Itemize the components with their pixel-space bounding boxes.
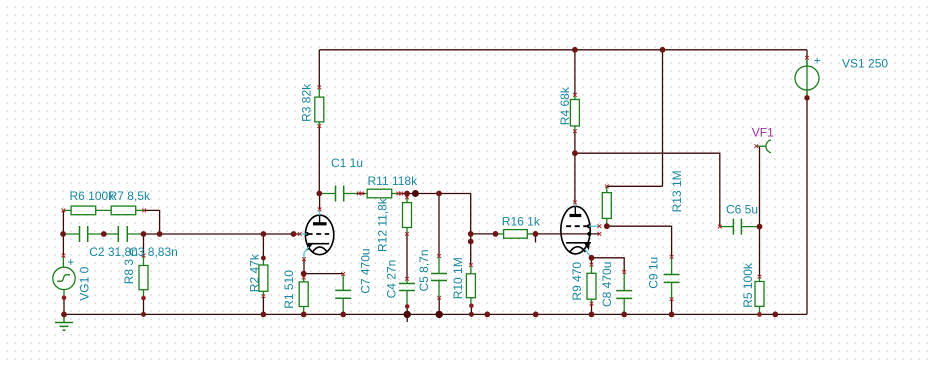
junction rail at ground xyxy=(61,312,67,318)
triode V1 envelope xyxy=(305,215,333,255)
junction R16 right xyxy=(533,231,539,237)
pin dot C4 bottom xyxy=(405,304,410,309)
wire C4 bottom to rail with stub xyxy=(406,306,408,322)
pin V2 grid xyxy=(598,224,602,228)
junction rail joint 1 xyxy=(484,312,490,318)
triode V1 cathode pin lead xyxy=(304,247,309,259)
wire R8 top link xyxy=(143,234,145,256)
wire C9 bottom to rail xyxy=(671,299,673,314)
wire R3 top to rail xyxy=(318,50,320,88)
pin R9 top xyxy=(590,263,594,267)
resistor R6 xyxy=(63,206,103,215)
pin C9 bottom xyxy=(670,297,674,301)
junction input node at VG1 xyxy=(60,231,66,237)
junction VS1 bottom pin xyxy=(804,95,809,100)
junction rail at R1 xyxy=(301,312,307,318)
triode V1 anode xyxy=(313,215,327,224)
svg-text:R4 68k: R4 68k xyxy=(558,86,572,125)
junction rail at R2 xyxy=(261,312,267,318)
pin V2 anode xyxy=(573,201,577,205)
wire V2 grid node to C9 xyxy=(607,226,672,257)
wire stub below R16 right pin xyxy=(535,234,537,243)
svg-text:R5 100k: R5 100k xyxy=(741,262,755,308)
wire node N2 branch down to C5 xyxy=(438,194,440,257)
wire R13 column to rail xyxy=(662,50,664,187)
resistor R4 xyxy=(570,95,579,131)
svg-text:+: + xyxy=(814,53,821,67)
svg-text:R12 11,8k: R12 11,8k xyxy=(376,197,390,252)
wire cathode node to C7 xyxy=(304,273,344,275)
svg-text:R1 510: R1 510 xyxy=(282,270,296,309)
wire R12 top link xyxy=(406,194,408,198)
pin C5 bottom xyxy=(437,296,441,300)
pin R5 top xyxy=(758,275,762,279)
pin R11 left xyxy=(360,192,364,196)
pin R12 bottom xyxy=(405,232,409,236)
junction top rail / R4 xyxy=(572,47,578,53)
junction R2 wire joint xyxy=(261,256,266,261)
svg-text:R3 82k: R3 82k xyxy=(300,83,314,122)
svg-text:C4 27n: C4 27n xyxy=(384,260,398,299)
junction top rail / R13 column xyxy=(660,47,666,53)
source VG1 body xyxy=(53,256,75,298)
junction rail at R9 xyxy=(589,312,595,318)
pin R13 top xyxy=(605,184,609,188)
resistor R1 xyxy=(299,276,308,314)
wire VS1 top lead drop xyxy=(806,50,808,58)
triode V2 grid (dashed) xyxy=(566,224,591,228)
capacitor C2 xyxy=(63,226,104,242)
wire C6 node down to R5 xyxy=(759,227,761,277)
junction N2 corner upper xyxy=(468,231,474,237)
capacitor C9 xyxy=(664,257,680,299)
pin dot VG1 bottom xyxy=(62,296,67,301)
wire R8 bottom to rail xyxy=(143,298,145,314)
wire VG1 top lead xyxy=(62,234,64,256)
wire ground bottom rail xyxy=(64,313,807,315)
svg-text:C5 8,7n: C5 8,7n xyxy=(417,249,431,291)
pin VS1 top xyxy=(805,56,809,60)
svg-text:+: + xyxy=(67,255,74,269)
wire C1 to R11 link xyxy=(357,193,365,195)
svg-text:VS1 250: VS1 250 xyxy=(842,57,888,71)
pin dot R8 bottom xyxy=(141,296,146,301)
pin VG1 top xyxy=(62,254,66,258)
capacitor C7 xyxy=(335,274,351,314)
junction rail joint 3 xyxy=(772,312,778,318)
svg-text:R11 118k: R11 118k xyxy=(368,174,419,188)
capacitor C6 xyxy=(720,219,760,235)
svg-text:R8 3: R8 3 xyxy=(122,259,136,285)
pin V1 cathode xyxy=(302,257,306,261)
triode V1 grid pin lead xyxy=(300,233,307,235)
resistor R12 xyxy=(403,197,412,233)
wire R12 bottom to C4 xyxy=(406,234,408,279)
probe VF1 symbol xyxy=(756,140,771,153)
resistor R10 xyxy=(466,265,475,306)
junction node N2 wire joint xyxy=(412,190,419,197)
junction rail at R10 xyxy=(469,312,474,317)
triode V1 grid (dashed) xyxy=(305,232,329,236)
wire input column VG1 to R6 xyxy=(62,210,64,234)
junction grid row at V1 grid xyxy=(291,231,297,237)
svg-text:VG1 0: VG1 0 xyxy=(77,266,91,300)
junction rail at R8 xyxy=(141,312,146,317)
junction input node at R7 corner xyxy=(157,231,163,237)
junction rail at C7 xyxy=(340,312,346,318)
junction R16 left xyxy=(493,231,499,237)
wire rail to R4 top xyxy=(574,50,576,95)
triode V1 cathode xyxy=(307,244,329,253)
triode V1 anode pin lead xyxy=(319,209,321,215)
wire VS1 to ground rail (right side) xyxy=(806,98,808,315)
wire node N2 down to R10 xyxy=(470,234,472,265)
svg-text:R9 470: R9 470 xyxy=(570,262,584,301)
svg-text:R2 47k: R2 47k xyxy=(248,253,262,292)
wire C5 bottom to rail xyxy=(438,298,440,315)
svg-text:C3 8,83n: C3 8,83n xyxy=(129,245,178,259)
wire VF1 probe drop to C6 node xyxy=(759,146,761,226)
junction rail joint 2 xyxy=(533,312,539,318)
pin R3 bottom xyxy=(317,124,321,128)
pin C9 top xyxy=(670,255,674,259)
pin V2 grid2 xyxy=(598,232,602,236)
triode V2 anode pin lead xyxy=(574,202,576,206)
junction rail at C4 xyxy=(404,311,411,318)
pin R9 bottom xyxy=(590,302,594,306)
pin VF1 probe xyxy=(754,144,758,148)
resistor R3 xyxy=(315,88,324,127)
pin R6 left xyxy=(62,209,66,213)
pin R3 top xyxy=(317,86,321,90)
pin R1 top xyxy=(302,276,306,280)
pin R11 right xyxy=(396,192,400,196)
junction V2 cathode node xyxy=(589,255,595,261)
resistor R2 xyxy=(259,261,268,297)
pin C6 left xyxy=(718,225,722,229)
junction rail at C5 xyxy=(436,311,443,318)
junction input node at R8 xyxy=(141,231,147,237)
wire R3 bottom to node A1 (V1 anode) xyxy=(318,126,320,194)
wire R2 top link xyxy=(262,234,264,261)
triode V2 cathode pin lead xyxy=(585,249,592,257)
svg-text:R10 1M: R10 1M xyxy=(451,257,465,299)
capacitor C3 xyxy=(104,226,144,242)
svg-text:R13 1M: R13 1M xyxy=(670,170,684,212)
wire V2 anode node row xyxy=(575,153,720,226)
pin dot V2 grid2 inside xyxy=(587,232,591,236)
junction node N2 at C5 xyxy=(436,191,442,197)
wire V2 cathode node to C8 xyxy=(592,258,625,272)
pin C7 top xyxy=(341,272,345,276)
junction node A1 (R3/C1/V1 anode) xyxy=(316,191,322,197)
wire R9 top link xyxy=(591,258,593,265)
resistor R7 xyxy=(103,206,143,215)
wire R16 to V2 grid2 connection xyxy=(536,233,600,235)
resistor R5 xyxy=(755,277,764,315)
resistor R9 xyxy=(587,265,596,304)
wire V1 anode lead xyxy=(319,194,321,210)
wire VG1 bottom to rail xyxy=(63,298,65,315)
svg-text:C6 5u: C6 5u xyxy=(726,203,758,217)
pin V1 grid xyxy=(298,232,302,236)
junction rail at C9 xyxy=(669,312,675,318)
pin R8 top xyxy=(142,254,146,258)
pin R4 bottom xyxy=(573,129,577,133)
capacitor C5 xyxy=(431,256,447,298)
wire node N2 to R16 xyxy=(471,233,496,235)
wire anode node to V2 anode xyxy=(574,153,576,202)
pin R7 right xyxy=(142,209,146,213)
capacitor C1 xyxy=(319,186,357,202)
wire R2 bottom to rail xyxy=(262,296,264,314)
pin V1 anode xyxy=(318,208,322,212)
svg-text:R7 8,5k: R7 8,5k xyxy=(109,189,151,203)
wire V1 cathode drop xyxy=(303,259,305,274)
triode V2 grid pin lead xyxy=(589,225,600,227)
junction V1 cathode node xyxy=(301,271,307,277)
pin C5 top xyxy=(437,254,441,258)
resistor R8 xyxy=(139,256,148,298)
svg-text:C1 1u: C1 1u xyxy=(331,156,363,170)
wire R4 bottom to anode node xyxy=(574,131,576,153)
wire R9 bottom to rail xyxy=(591,304,593,315)
svg-text:C7 470u: C7 470u xyxy=(358,248,372,293)
junction C6 / VF1 / R5 node xyxy=(757,224,763,230)
wire B+ top rail xyxy=(319,49,807,51)
junction rail at R5 xyxy=(757,312,762,317)
ground symbol xyxy=(55,314,73,330)
pin C4 top xyxy=(405,277,409,281)
source VS1 body xyxy=(795,58,819,98)
junction grid row at R2 xyxy=(261,231,267,237)
triode V2 cathode xyxy=(566,243,591,252)
wire grid row to V1 grid xyxy=(144,233,300,235)
svg-text:C8 470u: C8 470u xyxy=(600,262,614,307)
resistor R13 xyxy=(602,186,611,226)
pin R12 top xyxy=(405,196,409,200)
wire R10 bottom to rail xyxy=(470,306,472,315)
wire R11 to node N2 xyxy=(399,194,470,234)
svg-text:R16 1k: R16 1k xyxy=(502,215,541,229)
junction N2 corner lower xyxy=(468,239,474,245)
junction input node at R6/R7 xyxy=(101,231,107,237)
junction V2 grid node at R13 xyxy=(604,223,610,229)
capacitor C4 xyxy=(399,279,415,307)
pin C8 top xyxy=(622,270,626,274)
pin C1 right xyxy=(357,192,361,196)
resistor R16 xyxy=(496,230,536,239)
pin R11 right2 xyxy=(399,192,403,196)
capacitor C8 xyxy=(616,272,632,314)
pin R2 bottom xyxy=(262,294,266,298)
junction rail at C8 xyxy=(621,312,627,318)
junction V2 anode node at R4 xyxy=(572,150,578,156)
pin R4 top xyxy=(573,93,577,97)
junction node N2 at R12 xyxy=(404,191,410,197)
triode V2 anode xyxy=(570,206,582,215)
pin R10 top xyxy=(469,263,473,267)
wire R7 to grid row corner xyxy=(145,210,160,234)
pin dot R10 bottom xyxy=(469,304,474,309)
wire R13 top row xyxy=(607,185,663,187)
triode V2 envelope xyxy=(561,206,590,254)
svg-text:VF1: VF1 xyxy=(752,125,774,139)
svg-text:C9 1u: C9 1u xyxy=(646,257,660,289)
resistor R11 xyxy=(365,189,399,198)
